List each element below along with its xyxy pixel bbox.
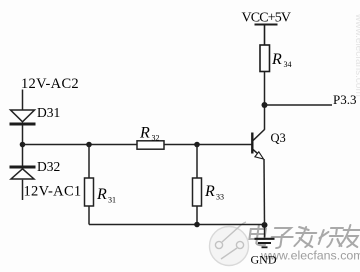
wire bbox=[264, 25, 266, 46]
wire to P3.3 bbox=[265, 104, 333, 106]
svg-text:P3.3: P3.3 bbox=[333, 92, 356, 107]
wire bbox=[88, 145, 90, 179]
svg-text:GND: GND bbox=[251, 253, 277, 267]
svg-text:R: R bbox=[139, 125, 150, 142]
watermark logo circle bbox=[210, 222, 249, 266]
resistor R31 bbox=[85, 178, 117, 206]
resistor R33 bbox=[193, 178, 225, 206]
svg-text:D32: D32 bbox=[37, 159, 60, 174]
wire base bus left bbox=[23, 144, 138, 146]
resistor R34 bbox=[260, 45, 292, 72]
node emitter/ground bbox=[262, 222, 268, 228]
svg-text:www.elecfans.com: www.elecfans.com bbox=[353, 13, 360, 97]
char fa bbox=[294, 227, 317, 247]
wire bbox=[22, 126, 24, 166]
svg-text:D31: D31 bbox=[37, 105, 60, 120]
resistor R32 bbox=[137, 125, 164, 150]
svg-text:R: R bbox=[204, 183, 215, 200]
svg-text:34: 34 bbox=[284, 60, 292, 69]
transistor Q3 bbox=[252, 130, 285, 160]
char dian bbox=[249, 225, 268, 245]
watermark text dian-zi-fa-shao-you (drawn strokes) bbox=[248, 225, 360, 248]
wire emitter down bbox=[263, 159, 266, 225]
wire bbox=[196, 145, 198, 179]
svg-text:12V-AC2: 12V-AC2 bbox=[21, 76, 79, 92]
node junction of D31/D32 bbox=[20, 142, 26, 148]
wire bbox=[264, 72, 266, 130]
svg-text:R: R bbox=[271, 51, 282, 68]
char you bbox=[339, 225, 360, 247]
char shao bbox=[318, 228, 344, 247]
svg-text:31: 31 bbox=[108, 196, 116, 205]
diode D31 bbox=[10, 105, 61, 124]
wire bbox=[196, 206, 198, 225]
wire bbox=[88, 206, 90, 225]
wire bbox=[22, 180, 24, 200]
svg-text:33: 33 bbox=[216, 193, 224, 202]
svg-text:VCC+5V: VCC+5V bbox=[242, 11, 291, 26]
svg-text:12V-AC1: 12V-AC1 bbox=[24, 184, 82, 200]
svg-text:R: R bbox=[96, 186, 107, 203]
node R33 bottom bbox=[194, 222, 200, 228]
node R33 top bbox=[194, 142, 200, 148]
svg-text:32: 32 bbox=[152, 134, 160, 143]
wire bbox=[22, 90, 24, 111]
char zi bbox=[270, 228, 294, 248]
diode D32 bbox=[10, 159, 61, 179]
power rail bar bbox=[255, 24, 278, 26]
node R31 top bbox=[86, 142, 92, 148]
ground bbox=[255, 225, 275, 247]
wire base bus right bbox=[164, 144, 252, 146]
wire bottom bus bbox=[89, 224, 265, 226]
node collector / P3.3 tap bbox=[262, 102, 268, 108]
svg-text:Q3: Q3 bbox=[271, 131, 286, 145]
